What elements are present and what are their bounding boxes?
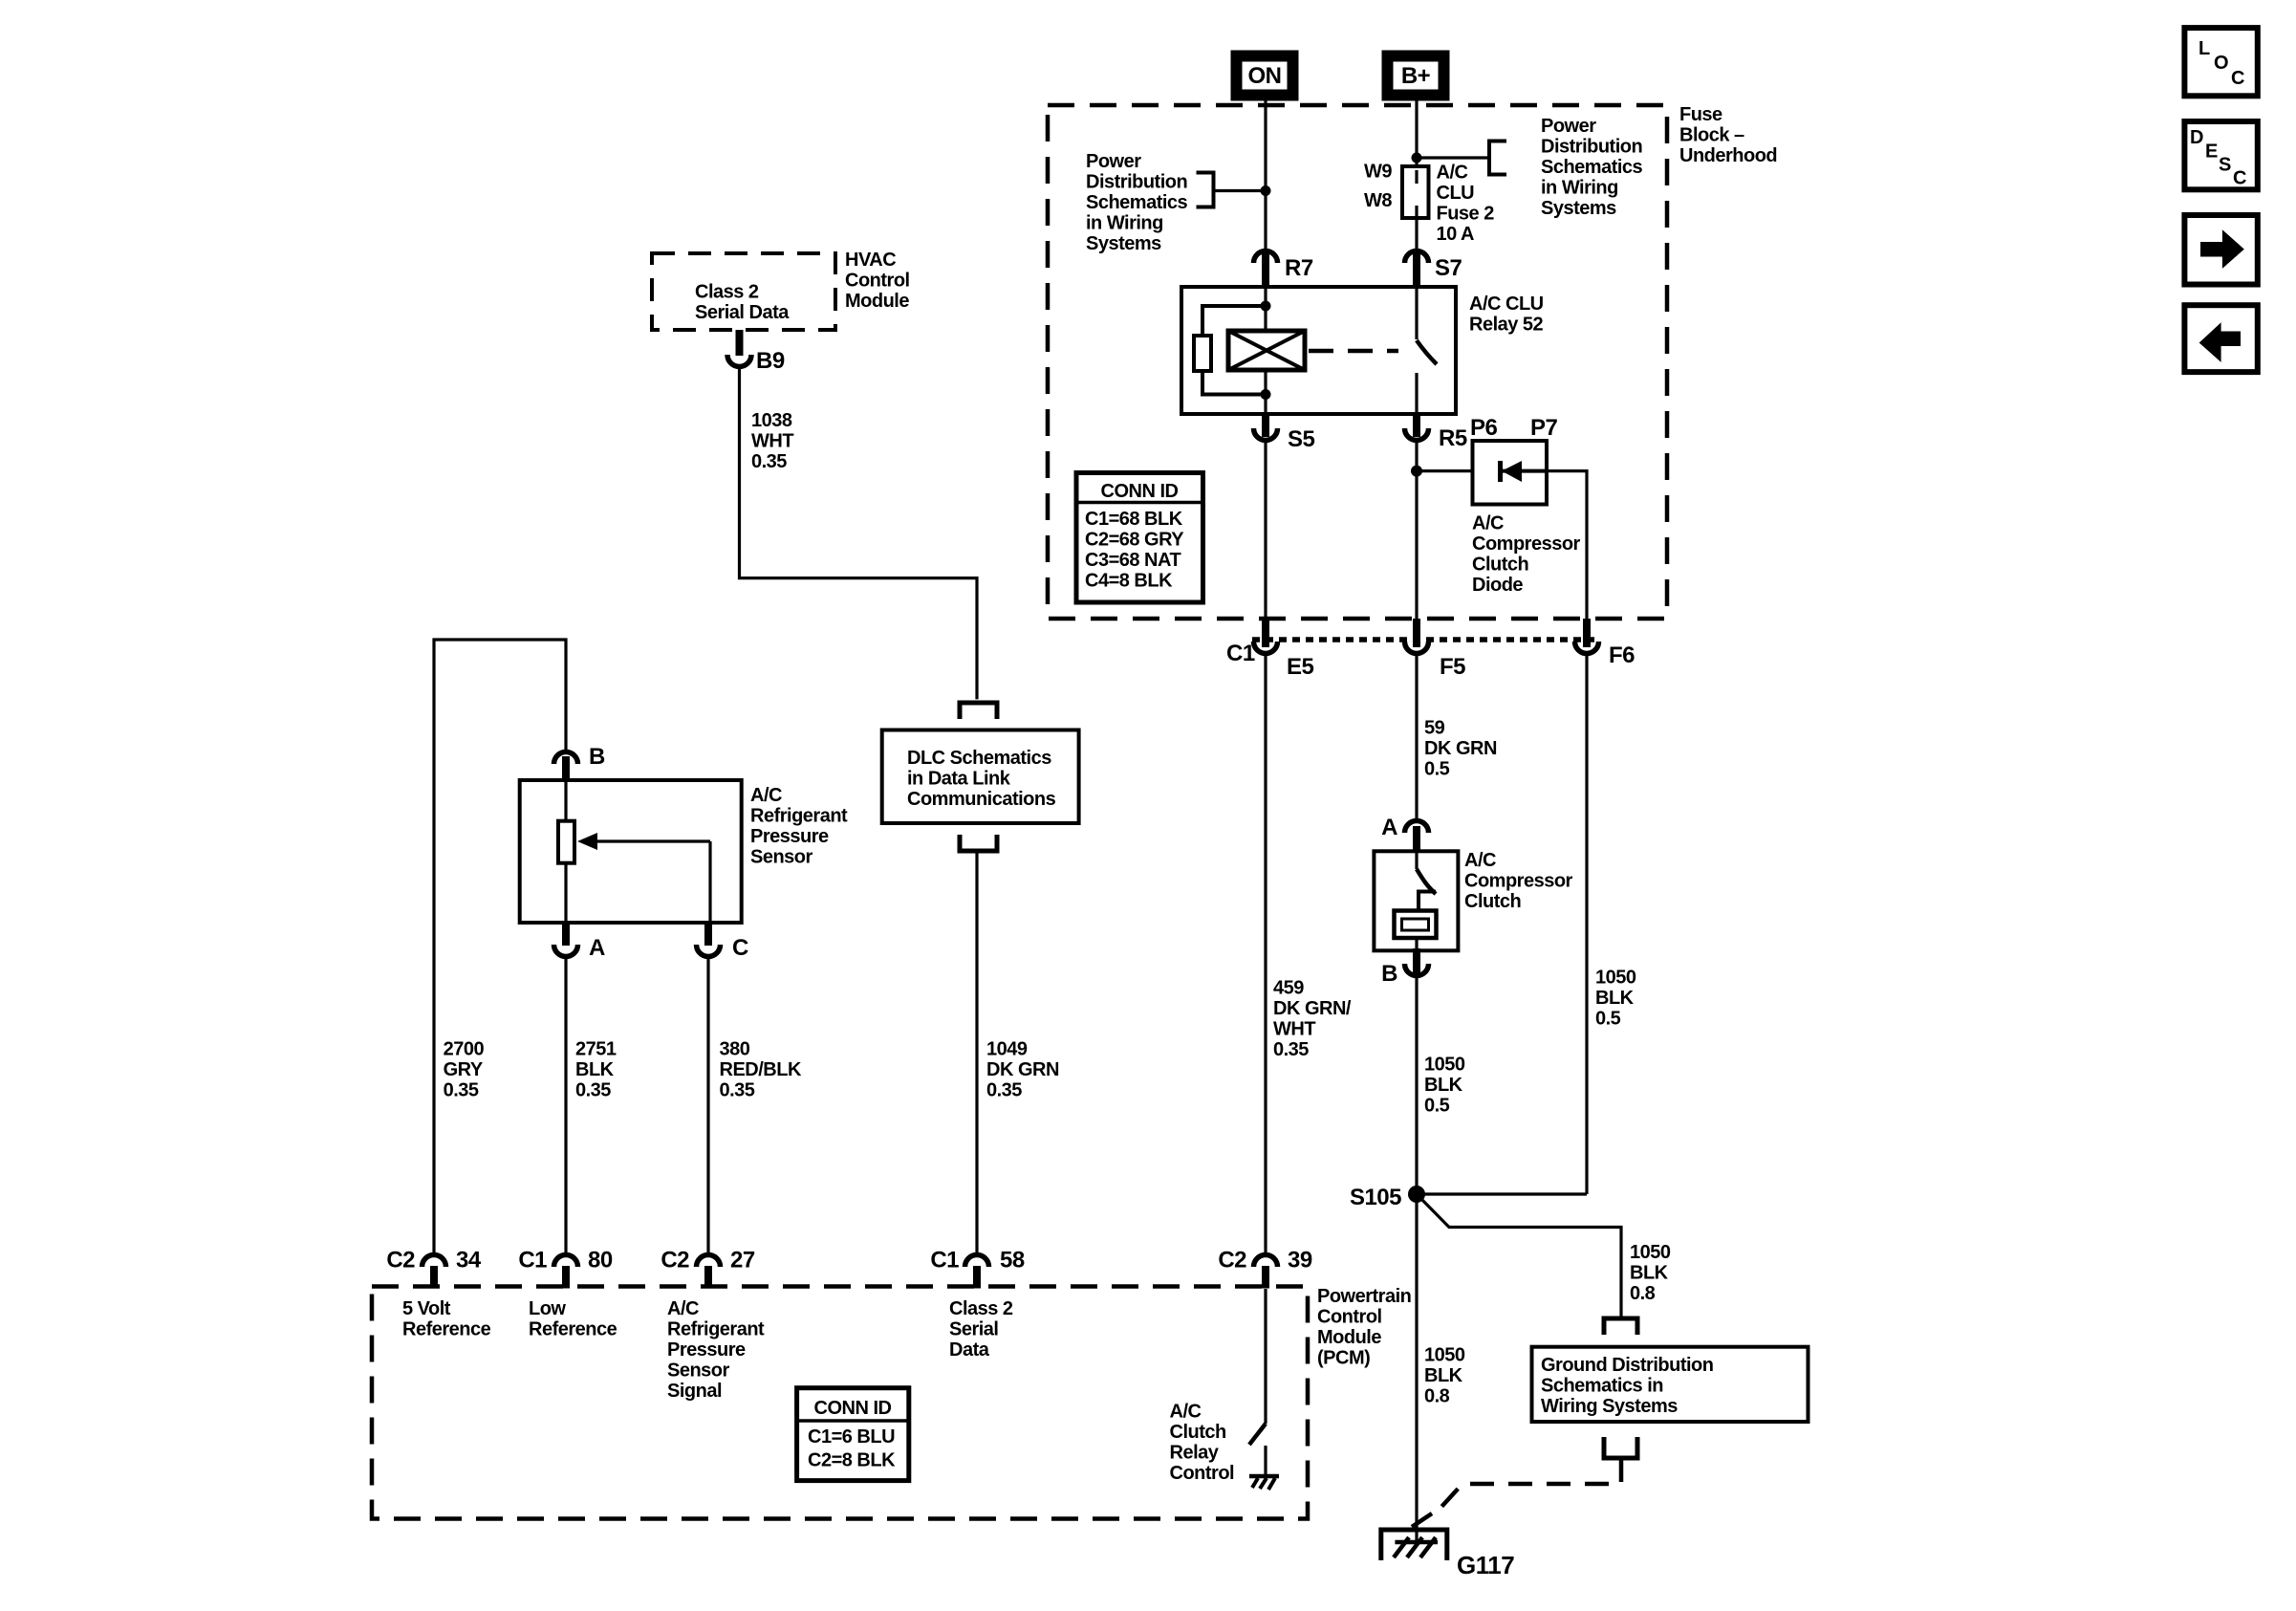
svg-text:S: S bbox=[2219, 155, 2231, 176]
svg-text:C: C bbox=[2231, 68, 2244, 89]
wire: diode to F6 drop bbox=[1547, 471, 1587, 647]
power feed B+ box bbox=[1386, 54, 1445, 97]
label: 1050 BLK 0.8 (to G117) bbox=[1424, 1345, 1465, 1407]
wire: S105 tie to F6 branch bbox=[1417, 1192, 1587, 1195]
svg-text:RED/BLK: RED/BLK bbox=[720, 1059, 802, 1080]
connector R7 bbox=[1254, 251, 1313, 288]
svg-text:BLK: BLK bbox=[575, 1059, 615, 1080]
svg-text:Distribution: Distribution bbox=[1541, 137, 1642, 158]
svg-text:Class 2: Class 2 bbox=[695, 282, 759, 303]
PCM internal ground symbol bbox=[1249, 1476, 1279, 1490]
svg-text:BLK: BLK bbox=[1424, 1075, 1463, 1096]
svg-text:Refrigerant: Refrigerant bbox=[667, 1319, 765, 1340]
connector A (sensor) bbox=[554, 921, 606, 961]
svg-text:0.8: 0.8 bbox=[1424, 1386, 1450, 1407]
svg-text:Power: Power bbox=[1086, 151, 1141, 172]
wire 1050: clutch B down to S105 bbox=[1415, 977, 1418, 1541]
nav forward arrow box bbox=[2184, 215, 2257, 285]
fuse block underhood dashed box bbox=[1048, 105, 1667, 619]
power feed ON box bbox=[1235, 54, 1294, 97]
svg-text:10 A: 10 A bbox=[1437, 224, 1475, 245]
svg-text:BLK: BLK bbox=[1630, 1263, 1669, 1284]
label: 2751 BLK 0.35 bbox=[575, 1039, 617, 1101]
wire: branch to diode bbox=[1417, 469, 1472, 472]
connector C1 E5 bbox=[1226, 619, 1314, 680]
HVAC control module dashed box bbox=[652, 253, 835, 330]
wire: ON feed down to R7 bbox=[1264, 97, 1267, 250]
svg-text:S5: S5 bbox=[1288, 426, 1315, 452]
node: coil top junction bbox=[1261, 301, 1271, 312]
svg-text:Control: Control bbox=[1317, 1307, 1382, 1328]
svg-text:B9: B9 bbox=[756, 348, 785, 374]
svg-text:Relay 52: Relay 52 bbox=[1469, 315, 1544, 336]
label: 1050 BLK 0.5 (F6) bbox=[1595, 967, 1636, 1029]
svg-text:C1: C1 bbox=[930, 1248, 959, 1274]
wire: S5 down through fuse block exit bbox=[1264, 439, 1267, 647]
diode symbol bbox=[1501, 461, 1548, 482]
svg-text:O: O bbox=[2214, 53, 2228, 74]
label: Fuse Block - Underhood bbox=[1679, 104, 1777, 166]
nav DESC box bbox=[2184, 121, 2257, 189]
label: HVAC Control Module bbox=[845, 250, 910, 312]
fuse block pass-through connector dotted row bbox=[1252, 637, 1600, 642]
svg-text:Clutch: Clutch bbox=[1472, 555, 1528, 576]
svg-text:C2=8 BLK: C2=8 BLK bbox=[808, 1450, 896, 1471]
svg-text:A/C: A/C bbox=[1437, 162, 1468, 183]
svg-text:Serial: Serial bbox=[949, 1319, 998, 1340]
label: Class 2 Serial Data bbox=[695, 282, 790, 324]
wire: S105 branch to ground distribution bbox=[1417, 1194, 1621, 1317]
A/C refrigerant pressure sensor box bbox=[520, 780, 742, 923]
svg-text:S7: S7 bbox=[1435, 255, 1462, 281]
right power distribution reference bracket bbox=[1417, 142, 1506, 175]
svg-text:CONN ID: CONN ID bbox=[1101, 481, 1179, 502]
ground G117 symbol bbox=[1381, 1530, 1447, 1560]
sensor wiper arrow bbox=[577, 833, 710, 923]
svg-text:in Wiring: in Wiring bbox=[1541, 178, 1618, 199]
svg-text:Systems: Systems bbox=[1086, 233, 1161, 254]
svg-text:A/C: A/C bbox=[1464, 850, 1496, 871]
connector B (sensor) bbox=[554, 744, 606, 780]
svg-text:A: A bbox=[1381, 815, 1397, 840]
connector C1 80 (PCM) bbox=[518, 1248, 613, 1289]
svg-text:Refrigerant: Refrigerant bbox=[750, 806, 848, 827]
DLC schematics reference box bbox=[882, 730, 1079, 824]
svg-text:in Data Link: in Data Link bbox=[907, 769, 1011, 790]
svg-text:BLK: BLK bbox=[1595, 988, 1635, 1009]
svg-text:0.5: 0.5 bbox=[1595, 1008, 1621, 1029]
svg-text:0.35: 0.35 bbox=[720, 1080, 755, 1101]
CONN ID table (fuse block) bbox=[1076, 473, 1203, 603]
svg-text:DK GRN: DK GRN bbox=[986, 1059, 1059, 1080]
svg-text:Fuse 2: Fuse 2 bbox=[1437, 203, 1495, 224]
svg-text:W8: W8 bbox=[1364, 190, 1392, 211]
label: A/C Refrigerant Pressure Sensor Signal bbox=[667, 1298, 765, 1402]
svg-text:Compressor: Compressor bbox=[1464, 870, 1573, 891]
ground distribution reference box bbox=[1532, 1347, 1809, 1422]
svg-text:B: B bbox=[1381, 961, 1397, 987]
svg-text:Reference: Reference bbox=[529, 1319, 617, 1340]
svg-text:L: L bbox=[2199, 38, 2210, 59]
label: A/C Compressor Clutch bbox=[1464, 850, 1573, 912]
connector R5 bbox=[1405, 412, 1467, 451]
relay coil box with X bbox=[1228, 331, 1305, 370]
svg-text:1038: 1038 bbox=[751, 410, 792, 431]
svg-text:Communications: Communications bbox=[907, 789, 1056, 810]
svg-text:459: 459 bbox=[1273, 978, 1304, 999]
svg-text:C1: C1 bbox=[1226, 641, 1255, 666]
svg-text:Distribution: Distribution bbox=[1086, 172, 1187, 193]
svg-text:ON: ON bbox=[1248, 63, 1282, 89]
svg-text:C1: C1 bbox=[518, 1248, 547, 1274]
svg-text:Schematics: Schematics bbox=[1541, 157, 1643, 178]
svg-text:C4=8 BLK: C4=8 BLK bbox=[1085, 571, 1173, 592]
svg-text:D: D bbox=[2190, 127, 2203, 148]
svg-text:C3=68 NAT: C3=68 NAT bbox=[1085, 550, 1180, 571]
svg-text:C: C bbox=[732, 935, 748, 961]
label: A/C Refrigerant Pressure Sensor bbox=[750, 785, 848, 868]
svg-text:Schematics: Schematics bbox=[1086, 192, 1188, 213]
wire 459: E5 down to PCM C2 39 bbox=[1264, 652, 1267, 1253]
svg-text:0.35: 0.35 bbox=[575, 1080, 611, 1101]
label: Low Reference bbox=[529, 1298, 617, 1340]
DLC in-line connector staple (top) bbox=[960, 703, 997, 719]
svg-text:39: 39 bbox=[1288, 1248, 1312, 1274]
wire 59: F5 down to clutch A bbox=[1415, 652, 1418, 821]
sensor potentiometer resistor bbox=[558, 821, 574, 863]
svg-text:B: B bbox=[589, 744, 605, 770]
svg-text:A/C: A/C bbox=[1472, 513, 1504, 534]
svg-text:A: A bbox=[589, 935, 605, 961]
svg-text:C2: C2 bbox=[661, 1248, 689, 1274]
svg-text:5 Volt: 5 Volt bbox=[402, 1298, 451, 1319]
svg-text:(PCM): (PCM) bbox=[1317, 1348, 1370, 1369]
svg-text:DK GRN/: DK GRN/ bbox=[1273, 998, 1352, 1019]
CONN ID table (PCM) bbox=[797, 1388, 909, 1481]
svg-text:F5: F5 bbox=[1440, 654, 1465, 680]
svg-text:E: E bbox=[2205, 142, 2218, 163]
wire 2751: sensor A down to PCM C1 80 bbox=[564, 955, 567, 1253]
svg-text:C2: C2 bbox=[386, 1248, 415, 1274]
svg-text:Powertrain: Powertrain bbox=[1317, 1286, 1411, 1307]
wire 1050: F6 down to S105 bbox=[1585, 652, 1588, 1194]
label: Powertrain Control Module (PCM) bbox=[1317, 1286, 1411, 1369]
splice S105 bbox=[1350, 1185, 1425, 1210]
connector C1 58 (PCM) bbox=[930, 1248, 1025, 1289]
svg-text:0.5: 0.5 bbox=[1424, 759, 1450, 780]
A/C compressor clutch diode box bbox=[1473, 441, 1548, 505]
A/C compressor clutch box bbox=[1374, 851, 1458, 950]
svg-text:1050: 1050 bbox=[1630, 1242, 1671, 1263]
svg-text:in Wiring: in Wiring bbox=[1086, 213, 1163, 234]
svg-text:BLK: BLK bbox=[1424, 1365, 1463, 1386]
label: DLC Schematics in Data Link Communications bbox=[907, 748, 1056, 810]
svg-text:C2: C2 bbox=[1218, 1248, 1246, 1274]
svg-text:B+: B+ bbox=[1401, 63, 1431, 89]
svg-text:Power: Power bbox=[1541, 116, 1596, 137]
wire 1038: B9 to DLC bbox=[740, 365, 978, 699]
relay coil vertical wire bbox=[1264, 287, 1267, 414]
nav back arrow box bbox=[2184, 305, 2257, 372]
label: 5 Volt Reference bbox=[402, 1298, 491, 1340]
svg-text:Sensor: Sensor bbox=[750, 847, 813, 868]
dashed return to G117 bbox=[1412, 1458, 1621, 1527]
connector C2 27 (PCM) bbox=[661, 1248, 755, 1289]
label: 59 DK GRN 0.5 bbox=[1424, 718, 1497, 780]
svg-text:27: 27 bbox=[730, 1248, 755, 1274]
svg-text:34: 34 bbox=[456, 1248, 482, 1274]
svg-text:P7: P7 bbox=[1530, 415, 1558, 441]
svg-text:0.35: 0.35 bbox=[751, 451, 787, 472]
svg-text:A/C CLU: A/C CLU bbox=[1469, 294, 1544, 315]
nav LOC box bbox=[2184, 28, 2257, 96]
label: Ground Distribution Schematics in Wiring Systems bbox=[1541, 1355, 1713, 1417]
svg-text:Underhood: Underhood bbox=[1679, 145, 1777, 166]
label: A/C Clutch Relay Control bbox=[1170, 1402, 1235, 1485]
label: 459 DK GRN/ WHT 0.35 bbox=[1273, 978, 1352, 1061]
svg-text:C1=6 BLU: C1=6 BLU bbox=[808, 1426, 895, 1448]
connector C (sensor) bbox=[697, 921, 749, 961]
svg-text:1049: 1049 bbox=[986, 1039, 1028, 1060]
svg-text:Data: Data bbox=[949, 1339, 990, 1361]
svg-text:W9: W9 bbox=[1364, 162, 1392, 183]
wire 1049: DLC down to PCM C1 58 bbox=[975, 851, 978, 1253]
label: 1049 DK GRN 0.35 bbox=[986, 1039, 1059, 1101]
label: Power Distribution Schematics in Wiring Systems (right) bbox=[1541, 116, 1643, 219]
svg-text:Reference: Reference bbox=[402, 1319, 491, 1340]
svg-text:0.35: 0.35 bbox=[444, 1080, 479, 1101]
svg-text:Relay: Relay bbox=[1170, 1443, 1220, 1464]
PCM dashed box bbox=[372, 1287, 1308, 1519]
svg-text:WHT: WHT bbox=[1273, 1019, 1315, 1040]
svg-text:Diode: Diode bbox=[1472, 575, 1523, 596]
connector S7 bbox=[1405, 251, 1462, 288]
connector C2 34 (PCM) bbox=[386, 1248, 482, 1289]
svg-text:Clutch: Clutch bbox=[1170, 1422, 1226, 1443]
node: coil bottom junction bbox=[1261, 389, 1271, 400]
connector S5 bbox=[1254, 412, 1315, 452]
svg-text:1050: 1050 bbox=[1424, 1055, 1465, 1076]
svg-text:A/C: A/C bbox=[1170, 1402, 1202, 1423]
label: 2700 GRY 0.35 bbox=[444, 1039, 485, 1101]
relay A/C CLU Relay 52 box bbox=[1181, 287, 1456, 414]
connector B9 bbox=[727, 330, 785, 374]
svg-text:HVAC: HVAC bbox=[845, 250, 896, 271]
svg-text:Serial Data: Serial Data bbox=[695, 302, 790, 323]
label: A/C Compressor Clutch Diode bbox=[1472, 513, 1581, 597]
svg-text:E5: E5 bbox=[1287, 654, 1314, 680]
svg-text:WHT: WHT bbox=[751, 431, 793, 452]
svg-text:Low: Low bbox=[529, 1298, 566, 1319]
ground distribution staple (top) bbox=[1604, 1318, 1637, 1335]
ground distribution staple (bottom) bbox=[1604, 1437, 1637, 1458]
svg-text:2700: 2700 bbox=[444, 1039, 485, 1060]
label: A/C CLU Fuse 2 10 A bbox=[1437, 162, 1495, 245]
label: 1050 BLK 0.5 (clutch) bbox=[1424, 1055, 1465, 1117]
svg-text:Compressor: Compressor bbox=[1472, 533, 1581, 555]
svg-text:G117: G117 bbox=[1457, 1551, 1514, 1579]
svg-text:CLU: CLU bbox=[1437, 183, 1475, 204]
svg-text:A/C: A/C bbox=[667, 1298, 699, 1319]
svg-text:1050: 1050 bbox=[1595, 967, 1636, 988]
connector F6 bbox=[1575, 619, 1635, 668]
svg-text:CONN ID: CONN ID bbox=[814, 1398, 892, 1419]
svg-text:S105: S105 bbox=[1350, 1185, 1401, 1210]
svg-text:Module: Module bbox=[1317, 1327, 1381, 1348]
label: Class 2 Serial Data bbox=[949, 1298, 1013, 1361]
svg-text:P6: P6 bbox=[1470, 415, 1498, 441]
svg-text:C: C bbox=[2233, 168, 2246, 189]
wire 380: sensor C down to PCM C2 27 bbox=[706, 955, 709, 1253]
sensor internal wires bbox=[564, 780, 567, 821]
svg-text:2751: 2751 bbox=[575, 1039, 617, 1060]
PCM driver wire and switch bbox=[1249, 1289, 1266, 1474]
label: A/C CLU Relay 52 bbox=[1469, 294, 1544, 336]
svg-text:0.5: 0.5 bbox=[1424, 1096, 1450, 1117]
clutch internal switch and coil bbox=[1395, 851, 1437, 950]
svg-text:59: 59 bbox=[1424, 718, 1445, 739]
label: Power Distribution Schematics in Wiring Systems (left) bbox=[1086, 151, 1188, 254]
relay switch bbox=[1417, 287, 1437, 414]
svg-text:A/C: A/C bbox=[750, 785, 782, 806]
svg-text:1050: 1050 bbox=[1424, 1345, 1465, 1366]
svg-text:Class 2: Class 2 bbox=[949, 1298, 1013, 1319]
svg-text:0.35: 0.35 bbox=[986, 1080, 1022, 1101]
svg-text:Sensor: Sensor bbox=[667, 1361, 730, 1382]
wire: R5 down bbox=[1415, 439, 1418, 647]
svg-text:Pressure: Pressure bbox=[750, 826, 829, 847]
svg-text:Schematics in: Schematics in bbox=[1541, 1376, 1663, 1397]
connector C2 39 (PCM) bbox=[1218, 1248, 1312, 1289]
svg-text:Wiring Systems: Wiring Systems bbox=[1541, 1396, 1678, 1417]
connector F5 bbox=[1405, 619, 1466, 680]
svg-text:0.8: 0.8 bbox=[1630, 1283, 1656, 1304]
svg-text:Fuse: Fuse bbox=[1679, 104, 1722, 125]
svg-text:Ground Distribution: Ground Distribution bbox=[1541, 1355, 1713, 1376]
svg-text:380: 380 bbox=[720, 1039, 750, 1060]
svg-text:C1=68 BLK: C1=68 BLK bbox=[1085, 509, 1183, 530]
relay resistor branch bbox=[1194, 306, 1266, 395]
svg-text:DK GRN: DK GRN bbox=[1424, 738, 1497, 759]
svg-text:R5: R5 bbox=[1439, 425, 1467, 451]
svg-text:58: 58 bbox=[1000, 1248, 1025, 1274]
svg-text:Pressure: Pressure bbox=[667, 1339, 746, 1361]
label: 380 RED/BLK 0.35 bbox=[720, 1039, 802, 1101]
dashed link coil to switch bbox=[1309, 349, 1398, 354]
svg-text:Signal: Signal bbox=[667, 1381, 722, 1402]
svg-text:Control: Control bbox=[845, 271, 910, 292]
fuse F2 A/C CLU 10A bbox=[1402, 166, 1429, 250]
connector B (clutch) bbox=[1381, 948, 1428, 987]
svg-text:R7: R7 bbox=[1285, 255, 1313, 281]
svg-text:DLC Schematics: DLC Schematics bbox=[907, 748, 1051, 769]
DLC in-line connector staple (bottom) bbox=[960, 835, 997, 851]
svg-text:GRY: GRY bbox=[444, 1059, 484, 1080]
svg-text:Systems: Systems bbox=[1541, 198, 1616, 219]
svg-text:0.35: 0.35 bbox=[1273, 1039, 1309, 1060]
label: W9 / W8 fuse pins bbox=[1364, 162, 1392, 211]
svg-text:Control: Control bbox=[1170, 1463, 1235, 1484]
label: 1038 WHT 0.35 bbox=[751, 410, 793, 472]
wire 2700: PCM C2 34 up and over to sensor B bbox=[434, 640, 566, 1253]
svg-text:F6: F6 bbox=[1609, 642, 1635, 668]
svg-text:C2=68 GRY: C2=68 GRY bbox=[1085, 530, 1184, 551]
node: diode branch junction bbox=[1411, 466, 1422, 477]
node: junction on B+ wire bbox=[1412, 153, 1422, 163]
svg-text:Clutch: Clutch bbox=[1464, 891, 1521, 912]
label: 1050 BLK 0.8 (branch) bbox=[1630, 1242, 1671, 1304]
connector A (clutch) bbox=[1381, 815, 1428, 853]
svg-text:Block –: Block – bbox=[1679, 125, 1744, 146]
node: junction on ON wire bbox=[1261, 185, 1271, 196]
svg-text:Module: Module bbox=[845, 291, 909, 312]
wire: B+ feed down to fuse bbox=[1415, 97, 1418, 170]
left power distribution reference bracket bbox=[1197, 173, 1267, 207]
svg-text:80: 80 bbox=[588, 1248, 613, 1274]
